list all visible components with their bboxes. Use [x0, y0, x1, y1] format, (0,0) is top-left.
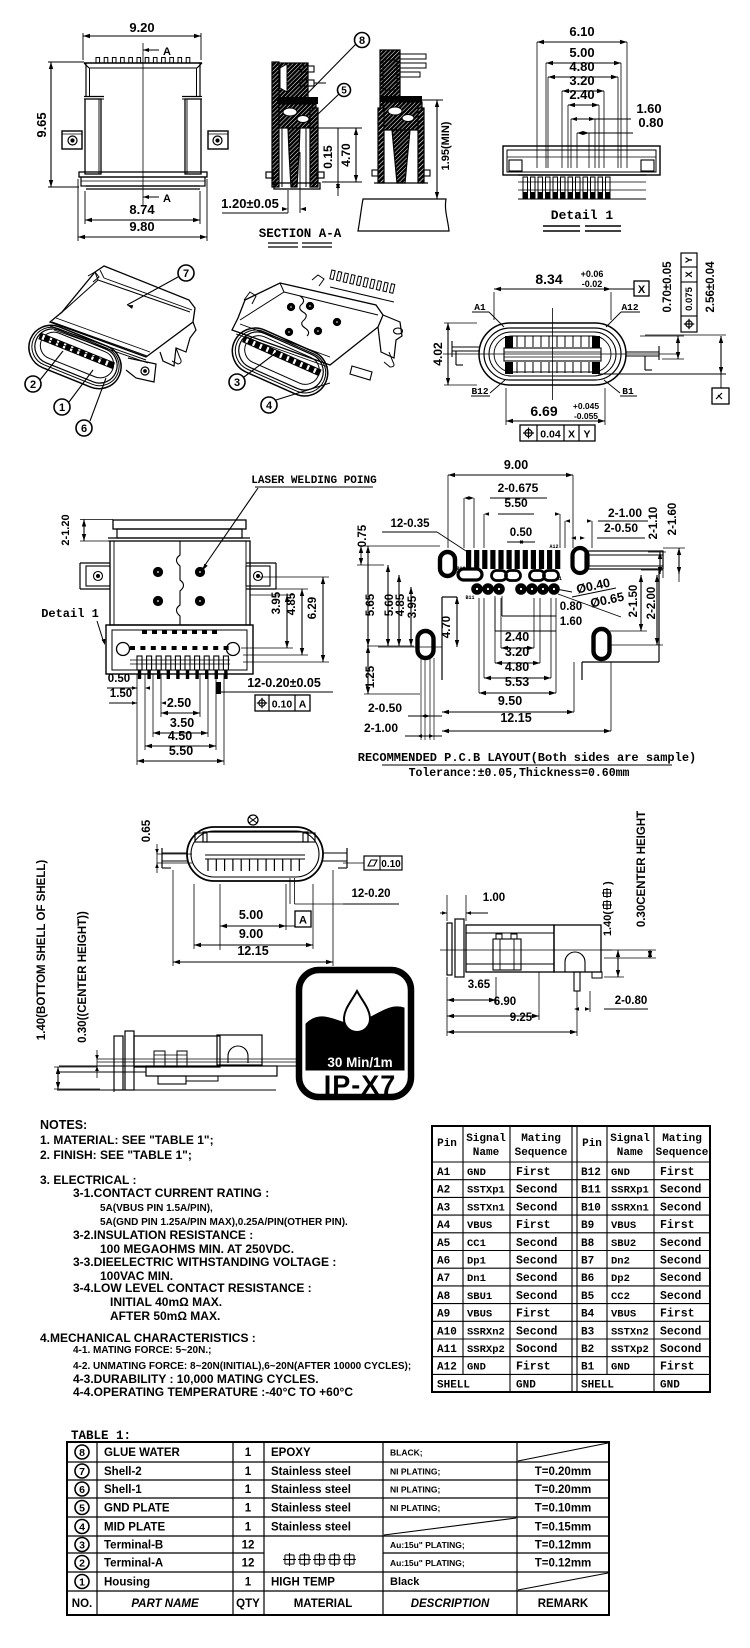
svg-text:SBU1: SBU1 — [467, 1291, 492, 1303]
svg-text:+0.045: +0.045 — [573, 401, 600, 411]
svg-text:First: First — [516, 1361, 551, 1374]
svg-text:B5: B5 — [581, 1291, 595, 1303]
svg-text:1.60: 1.60 — [560, 616, 582, 628]
svg-text:1.25: 1.25 — [365, 665, 377, 688]
svg-text:NI PLATING;: NI PLATING; — [390, 1503, 441, 1513]
svg-text:DESCRIPTION: DESCRIPTION — [411, 1598, 490, 1610]
svg-text:3. ELECTRICAL :: 3. ELECTRICAL : — [40, 1173, 136, 1187]
svg-text:9.80: 9.80 — [129, 219, 154, 234]
svg-text:B6: B6 — [581, 1273, 594, 1285]
svg-text:Mating: Mating — [662, 1133, 702, 1145]
svg-text:B11: B11 — [581, 1185, 601, 1197]
svg-text:1.95(MIN): 1.95(MIN) — [440, 121, 452, 170]
svg-text:Signal: Signal — [610, 1133, 650, 1145]
svg-text:4.MECHANICAL CHARACTERISTICS :: 4.MECHANICAL CHARACTERISTICS : — [40, 1331, 256, 1345]
svg-text:Second: Second — [660, 1184, 702, 1197]
svg-text:3.20: 3.20 — [569, 73, 594, 88]
svg-text:Dn2: Dn2 — [611, 1256, 630, 1268]
svg-text:5: 5 — [79, 1502, 85, 1514]
svg-text:Terminal-A: Terminal-A — [104, 1558, 163, 1570]
svg-text:5.00: 5.00 — [569, 45, 594, 60]
svg-text:2-0.50: 2-0.50 — [368, 701, 402, 715]
svg-text:4.85: 4.85 — [286, 592, 298, 615]
svg-text:8: 8 — [79, 1447, 85, 1459]
svg-text:Detail 1: Detail 1 — [551, 208, 614, 223]
svg-text:First: First — [660, 1308, 695, 1321]
svg-text:GND: GND — [467, 1167, 486, 1179]
svg-text:MID PLATE: MID PLATE — [104, 1522, 165, 1534]
svg-text:TABLE 1:: TABLE 1: — [71, 1429, 131, 1443]
svg-text:8: 8 — [359, 35, 365, 47]
svg-text:GND PLATE: GND PLATE — [104, 1503, 170, 1515]
svg-text:2: 2 — [79, 1557, 85, 1569]
svg-text:X: X — [638, 284, 646, 296]
svg-text:Shell-2: Shell-2 — [104, 1466, 142, 1478]
svg-text:7: 7 — [79, 1466, 85, 1478]
svg-text:6.10: 6.10 — [569, 24, 594, 39]
svg-text:B11: B11 — [465, 595, 474, 601]
svg-text:VBUS: VBUS — [611, 1220, 636, 1232]
svg-text:4-1. MATING FORCE: 5~20N.;: 4-1. MATING FORCE: 5~20N.; — [73, 1345, 211, 1356]
svg-text:1: 1 — [245, 1484, 252, 1496]
svg-text:VBUS: VBUS — [467, 1220, 492, 1232]
svg-text:Dp1: Dp1 — [467, 1256, 486, 1268]
svg-text:SECTION A-A: SECTION A-A — [259, 227, 342, 241]
svg-text:First: First — [516, 1166, 551, 1179]
svg-text:0.15: 0.15 — [321, 145, 335, 169]
svg-text:Black: Black — [390, 1576, 420, 1588]
svg-text:First: First — [660, 1166, 695, 1179]
svg-text:2-1.20: 2-1.20 — [60, 514, 72, 545]
svg-text:A1: A1 — [556, 576, 562, 582]
svg-text:Second: Second — [660, 1201, 702, 1214]
svg-text:4.80: 4.80 — [569, 59, 594, 74]
svg-text:First: First — [516, 1219, 551, 1232]
svg-text:A11: A11 — [437, 1344, 457, 1356]
svg-text:A1: A1 — [437, 1167, 451, 1179]
svg-text:1.40(BOTTOM SHELL OF SHELL): 1.40(BOTTOM SHELL OF SHELL) — [36, 860, 48, 1041]
svg-text:RECOMMENDED P.C.B LAYOUT(Bot: RECOMMENDED P.C.B LAYOUT(Both sides are … — [358, 751, 696, 765]
svg-text:1.50: 1.50 — [110, 688, 132, 700]
svg-text:2. FINISH: SEE "TABLE 1";: 2. FINISH: SEE "TABLE 1"; — [40, 1148, 192, 1162]
svg-text:PART NAME: PART NAME — [131, 1598, 199, 1610]
svg-text:SHELL: SHELL — [581, 1379, 614, 1391]
svg-text:Socond: Socond — [660, 1343, 702, 1356]
svg-text:4.50: 4.50 — [168, 729, 192, 743]
svg-text:Second: Second — [660, 1325, 702, 1338]
svg-text:Second: Second — [660, 1255, 702, 1268]
svg-text:Sequence: Sequence — [656, 1147, 709, 1159]
svg-text:1.40(: 1.40( — [602, 911, 614, 936]
svg-text:2-1.50: 2-1.50 — [628, 585, 640, 618]
svg-text:MATERIAL: MATERIAL — [294, 1598, 353, 1610]
svg-text:Y: Y — [684, 256, 695, 263]
svg-text:T=0.20mm: T=0.20mm — [535, 1484, 592, 1496]
svg-text:Second: Second — [516, 1201, 558, 1214]
svg-text:Au:15u" PLATING;: Au:15u" PLATING; — [390, 1558, 465, 1568]
svg-text:A4: A4 — [437, 1220, 451, 1232]
svg-text:B4: B4 — [581, 1309, 595, 1321]
svg-text:0.10: 0.10 — [381, 859, 401, 870]
svg-text:Second: Second — [516, 1255, 558, 1268]
svg-text:8.74: 8.74 — [129, 202, 155, 217]
svg-text:5.53: 5.53 — [505, 675, 529, 689]
svg-text:EPOXY: EPOXY — [271, 1447, 311, 1459]
svg-text:0.30CENTER HEIGHT: 0.30CENTER HEIGHT — [636, 811, 648, 927]
svg-text:100 MEGAOHMS MIN. AT 250VDC.: 100 MEGAOHMS MIN. AT 250VDC. — [100, 1242, 294, 1256]
svg-text:3.50: 3.50 — [170, 716, 194, 730]
svg-text:4.02: 4.02 — [431, 342, 445, 366]
svg-text:0.65: 0.65 — [141, 819, 153, 842]
svg-text:1. MATERIAL: SEE "TABLE 1";: 1. MATERIAL: SEE "TABLE 1"; — [40, 1133, 214, 1147]
svg-text:A8: A8 — [437, 1291, 451, 1303]
svg-text:SSRXn1: SSRXn1 — [611, 1202, 649, 1214]
svg-text:NI PLATING;: NI PLATING; — [390, 1485, 441, 1495]
svg-text:7: 7 — [183, 268, 189, 280]
svg-text:A2: A2 — [437, 1185, 450, 1197]
svg-text:Second: Second — [660, 1237, 702, 1250]
svg-text:Au:15u" PLATING;: Au:15u" PLATING; — [390, 1540, 465, 1550]
svg-text:AFTER 50mΩ MAX.: AFTER 50mΩ MAX. — [110, 1309, 220, 1323]
svg-text:6.90: 6.90 — [494, 996, 516, 1008]
svg-text:5.65: 5.65 — [365, 593, 377, 616]
svg-text:Terminal-B: Terminal-B — [104, 1540, 163, 1552]
svg-text:1: 1 — [245, 1503, 252, 1515]
svg-text:Housing: Housing — [104, 1577, 150, 1589]
svg-text:SSRXp2: SSRXp2 — [467, 1344, 505, 1356]
svg-text:Sequence: Sequence — [515, 1147, 568, 1159]
svg-text:-0.055: -0.055 — [574, 411, 598, 421]
svg-text:12-0.20±0.05: 12-0.20±0.05 — [247, 676, 321, 690]
svg-text:9.00: 9.00 — [504, 458, 528, 472]
svg-text:T=0.15mm: T=0.15mm — [535, 1522, 592, 1534]
svg-text:4-4.OPERATING TEMPERATURE :-40: 4-4.OPERATING TEMPERATURE :-40°C TO +60°… — [73, 1385, 353, 1399]
svg-text:SSTXp2: SSTXp2 — [611, 1344, 649, 1356]
svg-text:8.34: 8.34 — [535, 271, 562, 287]
svg-text:3.95: 3.95 — [407, 595, 419, 618]
svg-text:6.69: 6.69 — [530, 403, 557, 419]
svg-text:3-1.CONTACT CURRENT RATING :: 3-1.CONTACT CURRENT RATING : — [73, 1186, 269, 1200]
svg-text:A12: A12 — [437, 1362, 457, 1374]
svg-text:SSTXn1: SSTXn1 — [467, 1202, 505, 1214]
svg-text:Pin: Pin — [582, 1138, 602, 1150]
svg-text:2: 2 — [30, 379, 36, 391]
svg-text:QTY: QTY — [236, 1598, 260, 1610]
svg-text:NO.: NO. — [72, 1598, 92, 1610]
svg-text:Stainless steel: Stainless steel — [271, 1484, 351, 1496]
svg-text:4-3.DURABILITY : 10,000 MATING: 4-3.DURABILITY : 10,000 MATING CYCLES. — [73, 1372, 319, 1386]
svg-text:X: X — [568, 429, 575, 441]
svg-text:5.50: 5.50 — [504, 496, 528, 510]
svg-text:B1: B1 — [622, 386, 634, 397]
svg-text:0.75: 0.75 — [357, 524, 369, 547]
svg-text:-0.02: -0.02 — [582, 279, 603, 289]
svg-text:0.80: 0.80 — [560, 601, 582, 613]
svg-text:0.50: 0.50 — [510, 527, 532, 539]
svg-text:GND: GND — [660, 1379, 680, 1391]
svg-text:6: 6 — [81, 423, 87, 435]
svg-text:Signal: Signal — [466, 1133, 506, 1145]
svg-text:2-1.00: 2-1.00 — [364, 721, 398, 735]
svg-text:5A(GND PIN 1.25A/PIN MAX),0.25: 5A(GND PIN 1.25A/PIN MAX),0.25A/PIN(OTHE… — [100, 1217, 348, 1228]
svg-text:A9: A9 — [437, 1309, 450, 1321]
svg-text:4: 4 — [79, 1521, 85, 1533]
svg-text:SSRXp1: SSRXp1 — [611, 1185, 649, 1197]
svg-text:Dp2: Dp2 — [611, 1273, 630, 1285]
svg-text:T=0.10mm: T=0.10mm — [535, 1503, 592, 1515]
svg-text:A: A — [163, 193, 171, 205]
svg-text:Tolerance:±0.05,Thickness=0.60: Tolerance:±0.05,Thickness=0.60mm — [409, 767, 630, 780]
svg-text:Stainless steel: Stainless steel — [271, 1503, 351, 1515]
svg-text:4.80: 4.80 — [505, 660, 529, 674]
svg-text:Socond: Socond — [516, 1343, 558, 1356]
svg-text:1.60: 1.60 — [636, 101, 661, 116]
svg-text:12-0.20: 12-0.20 — [351, 888, 390, 900]
svg-text:A: A — [163, 46, 171, 58]
svg-text:4: 4 — [266, 400, 273, 412]
svg-text:CC2: CC2 — [611, 1291, 630, 1303]
svg-text:B12: B12 — [471, 386, 488, 397]
svg-text:2.56±0.04: 2.56±0.04 — [705, 261, 717, 313]
svg-text:1: 1 — [245, 1466, 252, 1478]
svg-text:T=0.12mm: T=0.12mm — [535, 1558, 592, 1570]
svg-text:B8: B8 — [581, 1238, 595, 1250]
svg-text:VBUS: VBUS — [467, 1309, 492, 1321]
svg-text:1: 1 — [79, 1576, 85, 1588]
svg-text:9.25: 9.25 — [510, 1012, 533, 1024]
svg-text:1: 1 — [245, 1577, 252, 1589]
svg-text:SHELL: SHELL — [437, 1379, 470, 1391]
svg-text:0.50: 0.50 — [108, 673, 130, 685]
svg-text:): ) — [602, 881, 614, 885]
svg-text:B3: B3 — [581, 1326, 595, 1338]
svg-text:30 Min/1m: 30 Min/1m — [327, 1055, 392, 1070]
svg-text:Second: Second — [660, 1272, 702, 1285]
svg-text:5A(VBUS PIN 1.5A/PIN),: 5A(VBUS PIN 1.5A/PIN), — [100, 1203, 213, 1214]
svg-text:A3: A3 — [437, 1202, 451, 1214]
svg-text:First: First — [660, 1361, 695, 1374]
svg-text:A: A — [299, 699, 307, 711]
svg-text:LASER WELDING POING: LASER WELDING POING — [251, 475, 377, 487]
svg-text:T=0.12mm: T=0.12mm — [535, 1540, 592, 1552]
svg-text:3-4.LOW LEVEL CONTACT RESISTAN: 3-4.LOW LEVEL CONTACT RESISTANCE : — [73, 1281, 312, 1295]
svg-text:A7: A7 — [437, 1273, 450, 1285]
svg-text:A5: A5 — [437, 1238, 451, 1250]
svg-text:B7: B7 — [581, 1256, 594, 1268]
svg-text:A1: A1 — [474, 302, 486, 313]
svg-text:2-1.00: 2-1.00 — [608, 506, 642, 520]
svg-text:0.30((CENTER HEIGHT)): 0.30((CENTER HEIGHT)) — [77, 911, 89, 1043]
svg-text:3.65: 3.65 — [468, 979, 491, 991]
svg-text:GLUE WATER: GLUE WATER — [104, 1447, 181, 1459]
svg-text:NOTES:: NOTES: — [40, 1118, 87, 1132]
svg-text:Detail 1: Detail 1 — [41, 607, 99, 621]
svg-text:NI PLATING;: NI PLATING; — [390, 1467, 441, 1477]
svg-text:Second: Second — [516, 1237, 558, 1250]
svg-text:0.80: 0.80 — [638, 115, 663, 130]
svg-text:2-0.675: 2-0.675 — [498, 481, 539, 495]
svg-text:Second: Second — [660, 1290, 702, 1303]
svg-text:1: 1 — [59, 402, 65, 414]
svg-text:REMARK: REMARK — [538, 1598, 589, 1610]
svg-text:Name: Name — [473, 1147, 500, 1159]
svg-text:Stainless steel: Stainless steel — [271, 1466, 351, 1478]
svg-text:2-0.80: 2-0.80 — [615, 995, 648, 1007]
svg-text:GND: GND — [611, 1362, 630, 1374]
svg-text:3-2.INSULATION RESISTANCE :: 3-2.INSULATION RESISTANCE : — [73, 1228, 253, 1242]
svg-text:0.075: 0.075 — [684, 286, 695, 310]
svg-text:2-1.60: 2-1.60 — [667, 503, 679, 536]
svg-text:A10: A10 — [437, 1326, 457, 1338]
svg-text:4.70: 4.70 — [339, 143, 353, 167]
svg-text:4.70: 4.70 — [441, 616, 453, 638]
svg-text:12-0.35: 12-0.35 — [390, 518, 430, 530]
svg-text:+0.06: +0.06 — [581, 269, 604, 279]
svg-text:Stainless steel: Stainless steel — [271, 1522, 351, 1534]
svg-text:4.85: 4.85 — [395, 593, 407, 616]
svg-text:3.20: 3.20 — [505, 645, 529, 659]
svg-text:B12: B12 — [581, 1167, 601, 1179]
svg-text:4-2. UNMATING FORCE: 8~20N(INI: 4-2. UNMATING FORCE: 8~20N(INITIAL),6~20… — [73, 1361, 411, 1372]
svg-text:3-3.DIEELECTRIC WITHSTANDING V: 3-3.DIEELECTRIC WITHSTANDING VOLTAGE : — [73, 1255, 336, 1269]
svg-text:1.20±0.05: 1.20±0.05 — [221, 196, 279, 211]
svg-text:Second: Second — [516, 1325, 558, 1338]
svg-text:INITIAL 40mΩ MAX.: INITIAL 40mΩ MAX. — [110, 1295, 222, 1309]
svg-text:3: 3 — [234, 377, 240, 389]
svg-text:SSRXn2: SSRXn2 — [467, 1326, 505, 1338]
svg-text:0.10: 0.10 — [272, 699, 293, 711]
svg-text:T=0.20mm: T=0.20mm — [535, 1466, 592, 1478]
svg-text:5.50: 5.50 — [169, 744, 193, 758]
svg-text:First: First — [516, 1308, 551, 1321]
svg-text:Name: Name — [617, 1147, 644, 1159]
svg-text:Y: Y — [583, 429, 590, 441]
svg-text:BLACK;: BLACK; — [390, 1448, 423, 1458]
svg-text:Second: Second — [516, 1184, 558, 1197]
svg-text:B12: B12 — [456, 566, 465, 572]
svg-text:5: 5 — [341, 86, 347, 97]
svg-text:12.15: 12.15 — [500, 711, 531, 725]
svg-text:12: 12 — [242, 1558, 255, 1570]
svg-text:IP-X7: IP-X7 — [324, 1070, 397, 1100]
svg-text:A12: A12 — [549, 544, 558, 550]
svg-text:1: 1 — [245, 1447, 252, 1459]
svg-text:B1: B1 — [581, 1362, 595, 1374]
svg-text:0.04: 0.04 — [540, 429, 561, 441]
svg-text:A: A — [299, 915, 307, 927]
svg-text:6.29: 6.29 — [307, 597, 319, 619]
svg-text:CC1: CC1 — [467, 1238, 486, 1250]
svg-text:9.50: 9.50 — [498, 694, 522, 708]
svg-text:B10: B10 — [581, 1202, 601, 1214]
svg-text:3: 3 — [79, 1539, 85, 1551]
svg-text:B2: B2 — [581, 1344, 594, 1356]
svg-text:Mating: Mating — [521, 1133, 561, 1145]
svg-text:2.40: 2.40 — [505, 630, 529, 644]
svg-text:SSTXn2: SSTXn2 — [611, 1326, 649, 1338]
svg-text:HIGH TEMP: HIGH TEMP — [271, 1577, 335, 1589]
svg-text:Pin: Pin — [437, 1138, 457, 1150]
svg-text:GND: GND — [516, 1379, 536, 1391]
svg-text:2-0.50: 2-0.50 — [604, 521, 638, 535]
svg-text:A12: A12 — [621, 302, 638, 313]
svg-text:SSTXp1: SSTXp1 — [467, 1185, 505, 1197]
svg-text:0.70±0.05: 0.70±0.05 — [662, 261, 674, 313]
svg-text:Second: Second — [516, 1290, 558, 1303]
svg-text:Dn1: Dn1 — [467, 1273, 486, 1285]
svg-text:6: 6 — [79, 1484, 85, 1496]
svg-text:2.50: 2.50 — [167, 696, 191, 710]
svg-text:Second: Second — [516, 1272, 558, 1285]
svg-text:Shell-1: Shell-1 — [104, 1484, 142, 1496]
svg-text:First: First — [660, 1219, 695, 1232]
svg-text:5.00: 5.00 — [239, 908, 263, 922]
svg-text:2.40: 2.40 — [569, 87, 594, 102]
svg-text:A6: A6 — [437, 1256, 450, 1268]
svg-text:12: 12 — [242, 1540, 255, 1552]
svg-text:VBUS: VBUS — [611, 1309, 636, 1321]
svg-text:1: 1 — [245, 1522, 252, 1534]
svg-text:12.15: 12.15 — [237, 944, 268, 958]
svg-text:2-2.00: 2-2.00 — [646, 587, 658, 620]
svg-text:9.20: 9.20 — [129, 20, 154, 35]
svg-text:GND: GND — [467, 1362, 486, 1374]
svg-text:9.00: 9.00 — [239, 927, 263, 941]
svg-text:2-1.10: 2-1.10 — [648, 507, 660, 540]
svg-text:X: X — [684, 271, 695, 278]
svg-text:SBU2: SBU2 — [611, 1238, 636, 1250]
svg-text:B9: B9 — [581, 1220, 594, 1232]
svg-text:GND: GND — [611, 1167, 630, 1179]
svg-text:1.00: 1.00 — [483, 892, 505, 904]
svg-text:9.65: 9.65 — [34, 112, 49, 137]
